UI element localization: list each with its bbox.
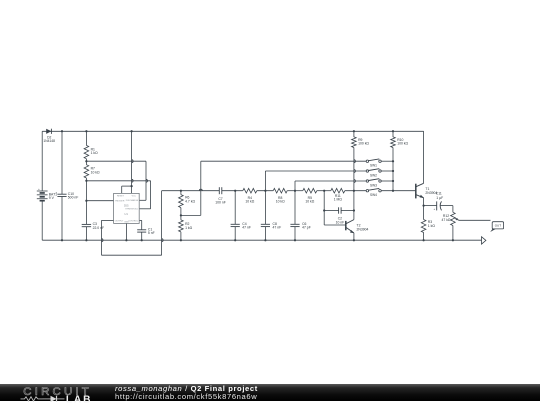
- hop ladder detour over gnd rail: [162, 239, 164, 242]
- capacitor C3: [82, 223, 91, 226]
- svg-text:R6: R6: [185, 196, 189, 200]
- junction C2 right: [353, 209, 355, 211]
- junction gnd rail U1 GND: [125, 239, 127, 241]
- svg-text:22.0 nF: 22.0 nF: [93, 226, 105, 230]
- svg-text:CONTROL: CONTROL: [128, 220, 139, 222]
- svg-text:2N3904: 2N3904: [357, 227, 369, 231]
- svg-text:C2: C2: [338, 217, 342, 221]
- resistor R4: [243, 188, 257, 193]
- svg-text:5 nF: 5 nF: [148, 231, 155, 235]
- capacitor C1: [137, 228, 146, 231]
- svg-text:10 nF: 10 nF: [336, 220, 345, 224]
- svg-text:C10: C10: [68, 192, 74, 196]
- wire pot bottom: [452, 226, 454, 241]
- wire C2 bridge: [324, 209, 338, 211]
- svg-text:R1: R1: [91, 147, 95, 151]
- svg-text:1 MΩ: 1 MΩ: [334, 198, 343, 202]
- svg-text:47 pF: 47 pF: [302, 226, 311, 230]
- wire bottom ground rail: [42, 239, 481, 241]
- wire T2 base branch: [323, 191, 325, 225]
- svg-text:1N4148: 1N4148: [43, 139, 55, 143]
- junction bus SW2: [392, 170, 394, 172]
- switch SW2: [366, 170, 368, 172]
- svg-text:R8: R8: [278, 196, 282, 200]
- hop output detour over gnd rail: [102, 239, 104, 242]
- wire C11 branch: [424, 204, 437, 206]
- svg-text:OUTPUT: OUTPUT: [115, 220, 124, 222]
- switch SW4: [366, 190, 368, 192]
- svg-text:U1: U1: [124, 212, 128, 216]
- svg-text:47 kΩ: 47 kΩ: [442, 218, 451, 222]
- hop vcc line over discharge wire: [132, 160, 134, 163]
- junction gnd rail R12: [452, 239, 454, 241]
- svg-text:C7: C7: [218, 197, 222, 201]
- wire left battery column: [41, 131, 43, 191]
- svg-text:47 nF: 47 nF: [242, 226, 251, 230]
- resistor R6: [179, 195, 184, 208]
- junction node C8: [264, 190, 266, 192]
- svg-text:OUT: OUT: [495, 224, 502, 228]
- svg-text:C8: C8: [273, 222, 277, 226]
- svg-text:100 nF: 100 nF: [215, 201, 226, 205]
- junction bus SW3: [392, 180, 394, 182]
- svg-text:R2: R2: [185, 222, 189, 226]
- transistor T1: [414, 184, 419, 199]
- svg-text:1 µF: 1 µF: [436, 196, 443, 200]
- junction node discharge: [85, 160, 87, 162]
- wire switch outputs bus: [381, 160, 393, 162]
- junction gnd rail R3: [422, 239, 424, 241]
- wire R9 column: [353, 131, 355, 137]
- svg-text:R5: R5: [308, 196, 312, 200]
- capacitor C8: [261, 223, 270, 226]
- svg-text:T1: T1: [425, 187, 429, 191]
- wire T1 emitter R3 column: [422, 198, 424, 220]
- wire C4 column: [234, 191, 236, 225]
- junction top rail C10: [61, 130, 63, 132]
- svg-text:+: +: [433, 207, 435, 211]
- resistor R3: [421, 220, 426, 233]
- junction C2 left: [323, 209, 325, 211]
- svg-text:100 kΩ: 100 kΩ: [358, 142, 369, 146]
- svg-text:10 kΩ: 10 kΩ: [91, 170, 100, 174]
- wire C10 column: [61, 131, 63, 194]
- junction top rail R9: [353, 130, 355, 132]
- svg-text:SW2: SW2: [370, 174, 377, 178]
- battery BAT1: [37, 190, 48, 192]
- wire discharge net: [86, 160, 146, 162]
- junction gnd rail C8: [264, 239, 266, 241]
- CircuitLab logo: [0, 384, 110, 405]
- junction gnd rail C6: [294, 239, 296, 241]
- wire C6 column and SW3 riser: [294, 191, 296, 225]
- junction node threshold: [85, 180, 87, 182]
- capacitor C7: [218, 187, 221, 194]
- svg-text:10 kΩ: 10 kΩ: [305, 200, 314, 204]
- svg-text:10 kΩ: 10 kΩ: [276, 200, 285, 204]
- wire ladder: [162, 189, 220, 191]
- wire gnd stub: [125, 223, 127, 240]
- svg-text:C1: C1: [148, 227, 152, 231]
- wire pot wiper to OUT: [459, 219, 491, 221]
- junction T1 emitter C11: [422, 204, 424, 206]
- svg-text:SW3: SW3: [370, 184, 377, 188]
- junction node trigger: [85, 200, 87, 202]
- svg-text:TRIGGER: TRIGGER: [115, 200, 125, 202]
- svg-text:47 nF: 47 nF: [273, 226, 282, 230]
- svg-text:C6: C6: [302, 222, 306, 226]
- svg-text:LAB: LAB: [66, 395, 92, 405]
- svg-text:T2: T2: [357, 224, 361, 228]
- svg-text:RESET: RESET: [117, 196, 125, 198]
- svg-text:R9: R9: [358, 138, 362, 142]
- junction gnd rail R2: [180, 239, 182, 241]
- wire trigger net: [86, 199, 113, 201]
- wire R10 bus column: [392, 131, 394, 137]
- svg-text:C11: C11: [436, 191, 442, 195]
- junction T2 base node: [323, 190, 325, 192]
- junction reset-vcc tie: [130, 185, 132, 187]
- capacitor C2: [337, 207, 340, 213]
- wire SW3 row: [295, 180, 366, 182]
- junction bus SW1: [392, 160, 394, 162]
- resistor R11: [331, 188, 345, 193]
- resistor R7: [84, 165, 89, 178]
- capacitor C6: [290, 223, 299, 226]
- hop vcc line over threshold wire: [132, 179, 134, 182]
- wire T1 collector column: [422, 131, 424, 183]
- junction top rail R10: [392, 130, 394, 132]
- wire top power rail: [42, 130, 423, 132]
- junction gnd rail C4: [234, 239, 236, 241]
- wire control net: [139, 219, 142, 221]
- svg-text:+: +: [55, 191, 57, 195]
- capacitor C10: [57, 193, 66, 196]
- node OUT flag: [490, 229, 496, 232]
- svg-text:VCC: VCC: [132, 196, 137, 198]
- svg-text:9 V: 9 V: [49, 196, 55, 200]
- junction gnd rail C3: [85, 239, 87, 241]
- hop R9 column over SW1 row: [354, 160, 356, 163]
- junction divider midpoint: [180, 214, 182, 216]
- junction node C4: [234, 190, 236, 192]
- svg-text:1 kΩ: 1 kΩ: [428, 224, 436, 228]
- wire output detour: [102, 219, 114, 221]
- svg-text:SW1: SW1: [370, 164, 377, 168]
- footer title text: [115, 385, 258, 393]
- resistor R8: [273, 188, 287, 193]
- switch SW1: [366, 160, 368, 162]
- wire T2 emitter: [353, 233, 355, 240]
- svg-text:R4: R4: [248, 196, 252, 200]
- capacitor C4: [231, 223, 240, 226]
- hop R9 column over SW2 row: [354, 170, 356, 173]
- svg-text:4.7 kΩ: 4.7 kΩ: [185, 199, 195, 203]
- wire reset tie: [121, 186, 123, 193]
- hop discharge wire over threshold wire: [146, 179, 148, 182]
- wire R6 R2 divider column: [180, 191, 182, 195]
- svg-text:R7: R7: [91, 167, 95, 171]
- resistor R2: [179, 220, 184, 232]
- svg-text:C4: C4: [242, 222, 246, 226]
- hop R9 column over SW3 row: [354, 180, 356, 183]
- svg-text:1 kΩ: 1 kΩ: [91, 151, 99, 155]
- potentiometer R12: [451, 212, 456, 225]
- wire SW1 row and divider tap: [201, 160, 366, 162]
- svg-text:R11: R11: [335, 194, 341, 198]
- capacitor C11 polarized: [435, 201, 438, 210]
- junction top rail VCC: [130, 130, 132, 132]
- wire VCC line to U1: [130, 131, 132, 193]
- svg-text:R3: R3: [428, 220, 432, 224]
- svg-text:1 kΩ: 1 kΩ: [185, 226, 193, 230]
- hop SW1 riser over ladder: [199, 189, 202, 191]
- junction R6 top: [180, 190, 182, 192]
- svg-text:SW4: SW4: [370, 193, 377, 197]
- switch SW3: [366, 180, 368, 182]
- ground triangle: [482, 237, 486, 244]
- resistor R5: [303, 188, 317, 193]
- svg-text:10 kΩ: 10 kΩ: [245, 200, 254, 204]
- svg-text:THRESHOLD: THRESHOLD: [125, 209, 138, 211]
- resistor R1: [84, 145, 89, 158]
- junction gnd rail C1: [141, 239, 143, 241]
- junction gnd rail C10: [61, 239, 63, 241]
- footer url text: [115, 393, 257, 401]
- wire threshold net: [86, 180, 150, 182]
- junction T2 collector node: [353, 190, 355, 192]
- svg-text:500 nF: 500 nF: [68, 196, 79, 200]
- footer bar: [0, 384, 540, 401]
- resistor R10: [391, 137, 396, 148]
- junction node C6: [294, 190, 296, 192]
- wire R1 R7 C3 column: [85, 131, 87, 145]
- svg-text:R10: R10: [397, 138, 403, 142]
- junction top rail R1: [85, 130, 87, 132]
- junction gnd rail T2 emitter: [353, 239, 355, 241]
- svg-text:555: 555: [124, 203, 129, 207]
- svg-text:C3: C3: [93, 222, 97, 226]
- wire SW2 row: [265, 170, 366, 172]
- timer U1 555 box: [114, 193, 140, 223]
- resistor R9: [352, 137, 357, 148]
- svg-text:100 kΩ: 100 kΩ: [397, 142, 408, 146]
- wire C8 column and SW2 riser: [264, 191, 266, 225]
- transistor T2: [344, 221, 349, 230]
- junction bus SW4 T1 base: [392, 190, 394, 192]
- svg-text:R12: R12: [443, 214, 449, 218]
- diode D2: [46, 129, 51, 134]
